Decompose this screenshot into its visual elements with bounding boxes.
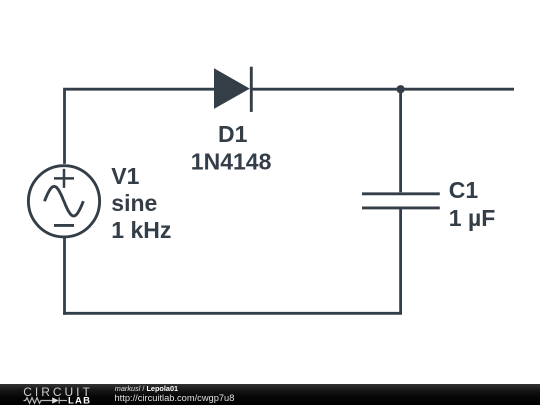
svg-text:http://circuitlab.com/cwgp7u8: http://circuitlab.com/cwgp7u8 (115, 393, 235, 403)
D1 cathode bar (250, 67, 253, 112)
node junction at D1 cathode / C1 / output (397, 85, 405, 93)
svg-text:V1: V1 (111, 163, 139, 189)
wire from bottom rail to V1 bottom terminal (63, 238, 66, 315)
svg-text:markusl / Lepola01: markusl / Lepola01 (115, 384, 178, 393)
V1 sine squiggle (44, 186, 83, 216)
C1 bottom plate (362, 206, 440, 209)
svg-text:D1: D1 (218, 121, 248, 147)
D1 anode triangle (214, 68, 250, 109)
wire from node to capacitor C1 top plate (399, 89, 402, 192)
wire from diode D1 cathode to open terminal (through node) (251, 88, 514, 91)
CircuitLab logo resistor+diode glyph (24, 397, 68, 403)
svg-text:1 µF: 1 µF (449, 205, 495, 231)
svg-text:1N4148: 1N4148 (191, 149, 272, 175)
wire bottom rail (63, 312, 402, 315)
V1 minus sign (54, 224, 74, 227)
C1 top plate (362, 192, 440, 195)
svg-text:sine: sine (111, 190, 157, 216)
wire from V1 top terminal to diode D1 anode (65, 89, 215, 164)
capacitor C1 (362, 194, 440, 208)
diode D1 (214, 67, 251, 112)
wire from capacitor C1 bottom plate to bottom rail (399, 209, 402, 313)
svg-text:C1: C1 (449, 177, 479, 203)
voltage source V1 (28, 166, 99, 237)
V1 plus sign (54, 169, 74, 188)
svg-text:1 kHz: 1 kHz (111, 217, 171, 243)
svg-text:LAB: LAB (68, 396, 91, 405)
